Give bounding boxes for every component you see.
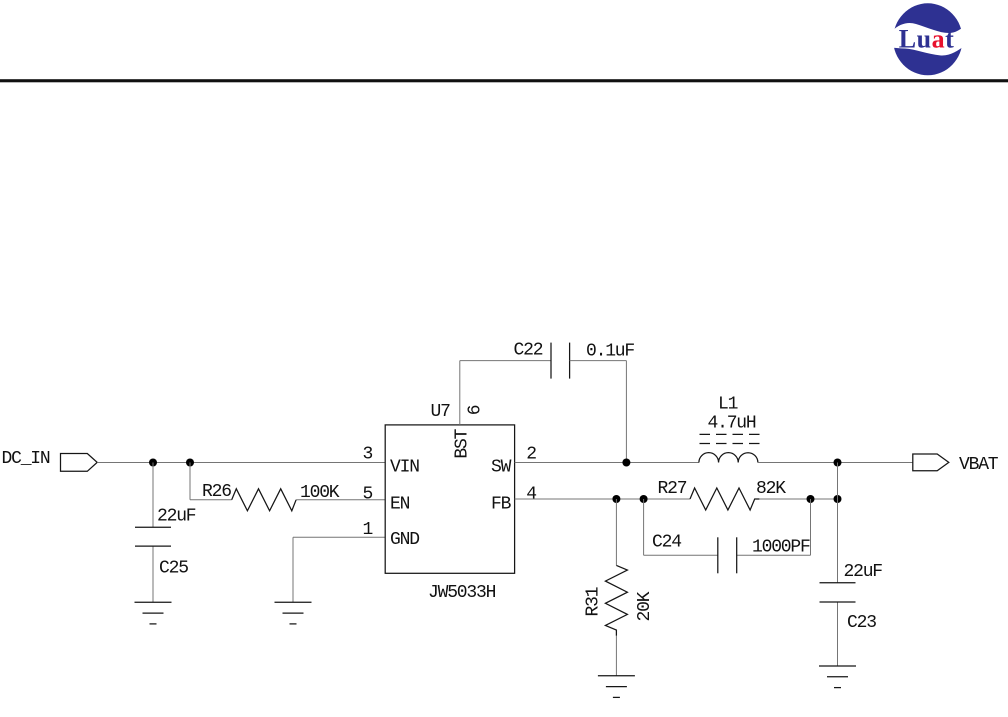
svg-text:22uF: 22uF [844,562,883,582]
pin 4 FB [491,485,536,515]
svg-text:3: 3 [363,445,373,465]
svg-text:VBAT: VBAT [959,455,999,475]
resistor R27 [658,479,787,510]
ground at C25 [135,602,172,624]
svg-text:U7: U7 [431,402,451,422]
svg-text:EN: EN [390,494,410,514]
node junction on VIN wire at C25 [149,459,157,467]
wire BST to C22 [460,361,551,425]
capacitor C24 [652,533,810,574]
port DC_IN [2,449,98,471]
svg-text:22uF: 22uF [157,507,196,527]
svg-text:20K: 20K [635,591,655,621]
resistor R26 [202,482,340,511]
wire SW to L1 [515,462,699,464]
svg-text:1: 1 [363,520,373,540]
inductor L1 [699,395,765,463]
wire DC_IN to VIN [97,462,385,464]
svg-text:C22: C22 [514,341,543,361]
svg-text:C24: C24 [652,533,681,553]
node junction SW / C22 [622,459,630,467]
svg-text:R27: R27 [658,479,687,499]
svg-text:R31: R31 [584,587,604,616]
ground at GND pin [275,602,312,624]
svg-text:6: 6 [466,405,486,415]
svg-text:82K: 82K [756,479,786,499]
svg-text:100K: 100K [300,483,340,503]
svg-text:DC_IN: DC_IN [2,449,50,469]
op-amp U1 : IC U7 JW5033H body [385,402,514,603]
svg-text:VIN: VIN [390,458,419,478]
svg-text:SW: SW [491,458,512,478]
wire FB row [515,498,838,500]
wire EN branch [190,463,385,500]
wire L1 to VBAT [758,462,913,464]
node junction FB / C23 branch [834,495,842,503]
wire C23 branch [837,463,839,667]
svg-text:C25: C25 [159,559,188,579]
svg-text:1000PF: 1000PF [752,538,810,558]
node junction FB / C24 left [640,495,648,503]
wire R31 branch [615,499,617,676]
wire C24 branch [644,499,811,555]
svg-text:5: 5 [363,485,373,505]
pin 6 BST [453,405,486,458]
capacitor C23 [820,562,883,633]
wire C22 to SW node [570,361,627,463]
svg-text:JW5033H: JW5033H [428,583,496,603]
capacitor C22 [514,341,635,379]
node junction FB / C24 right [807,495,815,503]
svg-text:C23: C23 [847,613,876,633]
svg-text:Luat: Luat [899,24,954,53]
pin 2 SW [491,445,536,478]
port VBAT [913,454,999,475]
ground at C23 [819,666,856,688]
svg-text:0.1uF: 0.1uF [586,342,634,362]
pin 5 EN [363,485,410,515]
svg-text:R26: R26 [202,482,231,502]
ground at R31 [598,676,635,698]
wire C25 branch [152,463,154,603]
node junction SW output / C23 branch [834,459,842,467]
svg-text:2: 2 [526,445,536,465]
svg-text:FB: FB [491,494,512,514]
capacitor C25 [135,507,196,579]
wire GND pin branch [293,537,385,602]
svg-text:4.7uH: 4.7uH [708,414,756,434]
svg-text:L1: L1 [718,395,738,415]
node junction FB / R31 [612,495,620,503]
resistor R31 [584,565,656,635]
svg-text:BST: BST [453,428,473,458]
svg-text:GND: GND [390,530,419,550]
pin 1 GND [363,520,420,550]
pin 3 VIN [363,445,420,478]
node junction on VIN wire at R26 branch [186,459,194,467]
Luat logo [892,3,964,75]
svg-text:4: 4 [526,485,536,505]
